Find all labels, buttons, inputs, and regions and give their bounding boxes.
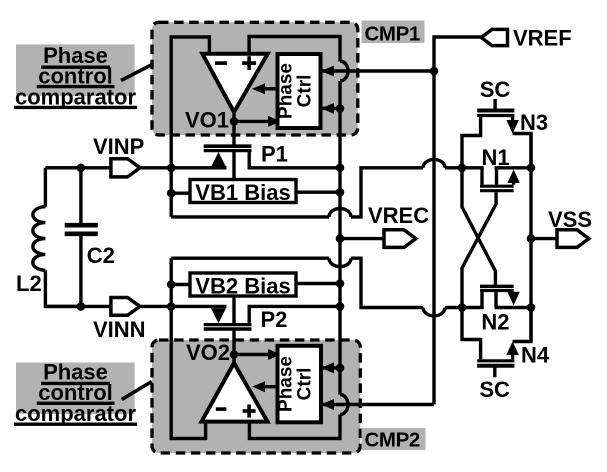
node P2 drain on VREC rail xyxy=(336,302,345,311)
CMP2 label xyxy=(362,428,426,452)
svg-text:L2: L2 xyxy=(16,271,42,296)
wire VREC to PhaseCtrl2 input xyxy=(322,366,340,369)
svg-text:VREF: VREF xyxy=(513,26,572,51)
hop VREC rail over VREF input (top) xyxy=(340,61,348,81)
wire VREC to PhaseCtrl1 input xyxy=(322,107,340,110)
svg-text:SC: SC xyxy=(479,377,510,402)
phase control block U4 (Phase Ctrl bottom) xyxy=(276,346,322,423)
bias block VB2 xyxy=(190,273,296,298)
node VO2 xyxy=(230,350,239,364)
wire VSS output xyxy=(531,237,557,240)
svg-text:VO2: VO2 xyxy=(186,340,230,365)
switch transistor N4 (NMOS, SC gate) xyxy=(462,308,531,378)
wire PhaseCtrl2 output to U2 xyxy=(264,385,278,388)
svg-text:VREC: VREC xyxy=(368,203,429,228)
svg-text:CMP1: CMP1 xyxy=(365,23,420,46)
wire VB2 left to VINN xyxy=(171,283,190,286)
pointer line bottom label to CMP2 xyxy=(122,382,152,400)
wire jog VINP rail to node A (top) xyxy=(171,159,462,216)
wire VREF to PhaseCtrl1 input xyxy=(322,69,434,72)
svg-text:P2: P2 xyxy=(261,307,288,332)
wire node-B rail (N2 drain segment) xyxy=(462,306,484,309)
wire N2 source rail segment xyxy=(495,306,531,309)
wire plus-input U1 (VREC sense) xyxy=(249,37,340,62)
svg-text:Phase: Phase xyxy=(276,63,297,119)
cross-coupling wire N1 gate to node B xyxy=(462,192,496,307)
N2 label xyxy=(481,309,509,334)
VREC label xyxy=(368,203,429,228)
node P1 drain on VREC rail xyxy=(336,164,345,173)
svg-text:Phase: Phase xyxy=(276,356,297,412)
VINP label xyxy=(93,134,144,159)
VSS label xyxy=(548,207,592,232)
wire PhaseCtrl1 output to U1 xyxy=(264,87,278,90)
node VSS-rail top junction xyxy=(527,164,536,173)
arrowhead PhaseCtrl1 output xyxy=(252,83,265,94)
inductor L2 xyxy=(33,168,81,307)
arrowhead PhaseCtrl2 output xyxy=(252,381,265,392)
wire plus-input U2 (VREC sense) xyxy=(249,415,340,439)
SC label (bottom) xyxy=(479,377,510,402)
output port VREC xyxy=(384,230,416,248)
node VREC tap PC1 xyxy=(336,104,345,113)
N3 label xyxy=(520,110,548,135)
svg-text:C2: C2 xyxy=(87,243,115,268)
bias block VB1 xyxy=(190,180,296,205)
node VB2 left xyxy=(167,280,176,289)
node VB1 left xyxy=(167,189,176,198)
node VINN rail / minus line xyxy=(167,302,176,311)
wire VSS-side vertical rail xyxy=(529,134,532,342)
transistor P1 (PMOS) xyxy=(204,121,340,179)
arrowhead VO2 into PhaseCtrl2 xyxy=(268,349,281,360)
SC label (top) xyxy=(480,77,511,102)
node VINP rail / minus line xyxy=(167,164,176,173)
phase control comparator label (bottom) xyxy=(14,360,137,426)
wire VO2 to PhaseCtrl2 xyxy=(234,353,270,356)
output port VSS xyxy=(557,230,589,248)
wire minus-input U1 (VINP sense) xyxy=(171,37,209,217)
arrowhead into PhaseCtrl1 top input xyxy=(321,66,334,77)
node VINN-tank junction xyxy=(77,302,86,311)
phase control block U3 (Phase Ctrl top) xyxy=(276,54,321,128)
node VO1 xyxy=(230,112,239,126)
comparator block CMP2 dashed box xyxy=(152,340,360,453)
svg-text:SC: SC xyxy=(480,77,511,102)
hop VREC rail over VREF input (bottom) xyxy=(340,395,348,415)
VO1 label xyxy=(185,108,229,133)
wire VB2 right to VREC xyxy=(296,282,340,285)
transistor P2 (PMOS) xyxy=(204,296,340,355)
wire VO1 to PhaseCtrl1 xyxy=(234,120,270,123)
wire VB1 left to VINP xyxy=(171,191,190,194)
svg-text:N1: N1 xyxy=(482,145,510,170)
node VREC tap xyxy=(336,234,345,243)
input port VREF xyxy=(481,29,507,45)
svg-text:VB1 Bias: VB1 Bias xyxy=(195,180,290,205)
wire VREC output xyxy=(340,237,384,240)
svg-text:VB2 Bias: VB2 Bias xyxy=(195,273,290,298)
wire VB1 right to VREC xyxy=(296,190,340,193)
svg-text:CMP2: CMP2 xyxy=(365,429,420,452)
cross-coupling wire node A to N2 gate xyxy=(462,168,495,285)
wire minus-input U2 (VINN sense) xyxy=(171,258,205,438)
arrowhead into PhaseCtrl2 top input xyxy=(321,362,334,373)
svg-text:N2: N2 xyxy=(481,309,509,334)
input port VINN xyxy=(111,298,140,316)
node VINP-tank junction xyxy=(77,164,86,173)
node VSS-rail bottom junction xyxy=(527,303,536,312)
wire VREF to PhaseCtrl2 input xyxy=(322,403,434,406)
node VB1 right on VREC rail xyxy=(336,188,345,197)
svg-text:N4: N4 xyxy=(521,343,550,368)
VO2 label xyxy=(186,340,230,365)
input port VINP xyxy=(111,159,140,177)
C2 label xyxy=(87,243,115,268)
switch transistor N3 (NMOS, SC gate) xyxy=(462,99,531,168)
VINN label xyxy=(93,317,146,342)
wire VREC rail (vertical) xyxy=(338,81,341,395)
wire VREF rail (vertical) xyxy=(432,71,435,405)
op-amp U1 (top comparator) xyxy=(202,54,267,112)
op-amp U2 (bottom comparator) xyxy=(202,363,268,422)
wire N1 source rail segment xyxy=(495,166,531,169)
arrowhead into PhaseCtrl1 bottom input xyxy=(321,103,334,114)
svg-text:VINN: VINN xyxy=(93,317,146,342)
wire node-A rail (N1 drain segment) xyxy=(462,166,484,169)
wire VINN rail xyxy=(45,305,226,308)
N1 label xyxy=(482,145,510,170)
phase control comparator label (top) xyxy=(14,43,137,109)
P2 label xyxy=(261,307,288,332)
transistor N1 (NMOS, gate down) xyxy=(480,168,520,191)
node B junction xyxy=(458,303,467,312)
svg-text:P1: P1 xyxy=(261,141,288,166)
wire VREF horizontal xyxy=(434,37,482,71)
N4 label xyxy=(521,343,550,368)
L2 label xyxy=(16,271,42,296)
svg-text:Ctrl: Ctrl xyxy=(295,75,316,108)
node VB2 right on VREC rail xyxy=(336,279,345,288)
wire jog VINN rail to node B (bottom) xyxy=(171,258,462,316)
node A junction xyxy=(458,164,467,173)
comparator block CMP1 dashed box xyxy=(152,22,358,135)
capacitor C2 xyxy=(65,168,98,307)
transistor N2 (NMOS, gate up) xyxy=(480,286,520,307)
arrowhead VO1 into PhaseCtrl1 xyxy=(268,116,281,127)
svg-text:Ctrl: Ctrl xyxy=(295,368,316,401)
node VSS tap xyxy=(527,234,536,243)
VREF label xyxy=(513,26,572,51)
pointer line top label to CMP1 xyxy=(121,65,152,81)
wire VINP rail xyxy=(45,166,226,169)
arrowhead into PhaseCtrl2 bottom input xyxy=(321,399,334,410)
node VREF tee xyxy=(430,67,439,76)
svg-text:VO1: VO1 xyxy=(185,108,229,133)
svg-text:VSS: VSS xyxy=(548,207,592,232)
svg-text:VINP: VINP xyxy=(93,134,144,159)
svg-text:N3: N3 xyxy=(520,110,548,135)
node VREC tap PC2 xyxy=(336,364,345,373)
P1 label xyxy=(261,141,288,166)
CMP1 label xyxy=(362,21,425,46)
